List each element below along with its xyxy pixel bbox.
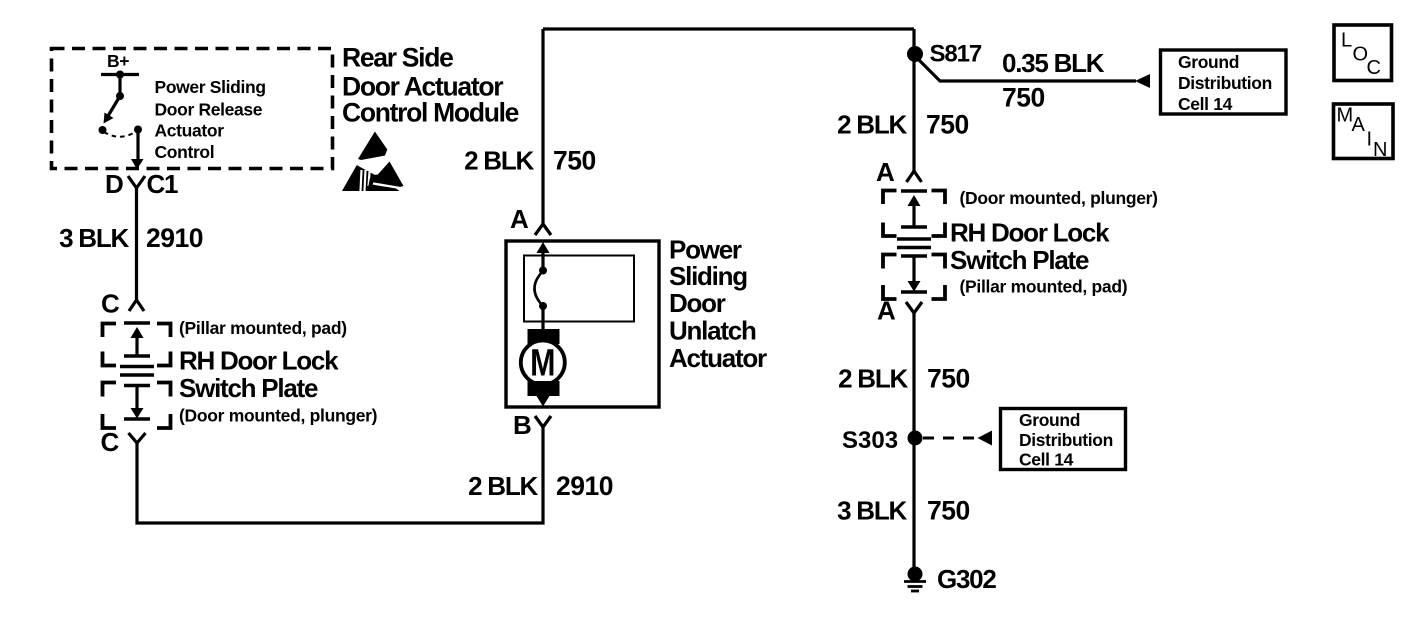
svg-text:Cell 14: Cell 14 <box>1178 94 1233 114</box>
svg-text:750: 750 <box>553 146 596 176</box>
svg-text:(Pillar mounted, pad): (Pillar mounted, pad) <box>179 318 347 338</box>
svg-text:S817: S817 <box>930 41 982 68</box>
svg-text:C: C <box>1367 57 1381 79</box>
svg-text:Switch Plate: Switch Plate <box>179 373 318 403</box>
svg-text:Actuator: Actuator <box>155 121 225 141</box>
svg-text:Sliding: Sliding <box>669 261 747 291</box>
svg-text:L: L <box>1341 30 1352 52</box>
svg-text:Power Sliding: Power Sliding <box>155 77 266 97</box>
svg-text:2 BLK: 2 BLK <box>838 364 908 394</box>
svg-text:C: C <box>101 289 120 319</box>
svg-text:3 BLK: 3 BLK <box>837 496 907 526</box>
svg-text:0.35 BLK: 0.35 BLK <box>1002 48 1105 78</box>
svg-text:B+: B+ <box>107 51 129 71</box>
svg-text:750: 750 <box>926 110 969 140</box>
svg-text:RH Door Lock: RH Door Lock <box>950 218 1110 248</box>
svg-text:Distribution: Distribution <box>1178 73 1272 93</box>
svg-text:2 BLK: 2 BLK <box>468 471 538 501</box>
svg-text:750: 750 <box>1002 83 1045 113</box>
svg-text:A: A <box>510 204 529 234</box>
svg-text:2910: 2910 <box>146 223 203 253</box>
svg-text:A: A <box>1352 114 1366 136</box>
svg-text:Unlatch: Unlatch <box>669 316 756 346</box>
svg-text:Control: Control <box>155 142 215 162</box>
svg-text:Door: Door <box>669 288 726 318</box>
svg-text:Distribution: Distribution <box>1019 430 1113 450</box>
svg-text:2 BLK: 2 BLK <box>837 110 907 140</box>
svg-text:B: B <box>513 410 531 440</box>
svg-text:Power: Power <box>669 235 742 265</box>
svg-text:S303: S303 <box>842 427 898 454</box>
svg-text:(Pillar mounted, pad): (Pillar mounted, pad) <box>960 277 1128 297</box>
svg-text:Cell 14: Cell 14 <box>1019 450 1074 470</box>
svg-text:(Door mounted, plunger): (Door mounted, plunger) <box>179 406 377 426</box>
svg-text:3 BLK: 3 BLK <box>59 223 129 253</box>
svg-text:Door Release: Door Release <box>155 100 263 120</box>
svg-text:2910: 2910 <box>556 471 613 501</box>
svg-text:A: A <box>876 157 895 187</box>
svg-text:A: A <box>877 296 896 326</box>
svg-text:(Door mounted, plunger): (Door mounted, plunger) <box>960 188 1158 208</box>
svg-text:Ground: Ground <box>1019 410 1080 430</box>
svg-text:N: N <box>1373 139 1387 161</box>
svg-text:750: 750 <box>927 364 970 394</box>
svg-text:I: I <box>1367 129 1373 151</box>
svg-text:C1: C1 <box>147 169 179 199</box>
svg-text:2 BLK: 2 BLK <box>464 146 534 176</box>
svg-text:D: D <box>105 169 123 199</box>
svg-text:G302: G302 <box>937 564 996 594</box>
svg-text:RH Door Lock: RH Door Lock <box>179 346 339 376</box>
svg-text:C: C <box>101 427 120 457</box>
svg-text:Ground: Ground <box>1178 52 1239 72</box>
svg-text:Rear Side: Rear Side <box>342 43 453 73</box>
svg-text:750: 750 <box>927 496 970 526</box>
svg-text:Switch Plate: Switch Plate <box>950 245 1089 275</box>
svg-text:M: M <box>530 342 555 384</box>
svg-text:Control Module: Control Module <box>342 98 519 128</box>
svg-text:Actuator: Actuator <box>669 343 767 373</box>
